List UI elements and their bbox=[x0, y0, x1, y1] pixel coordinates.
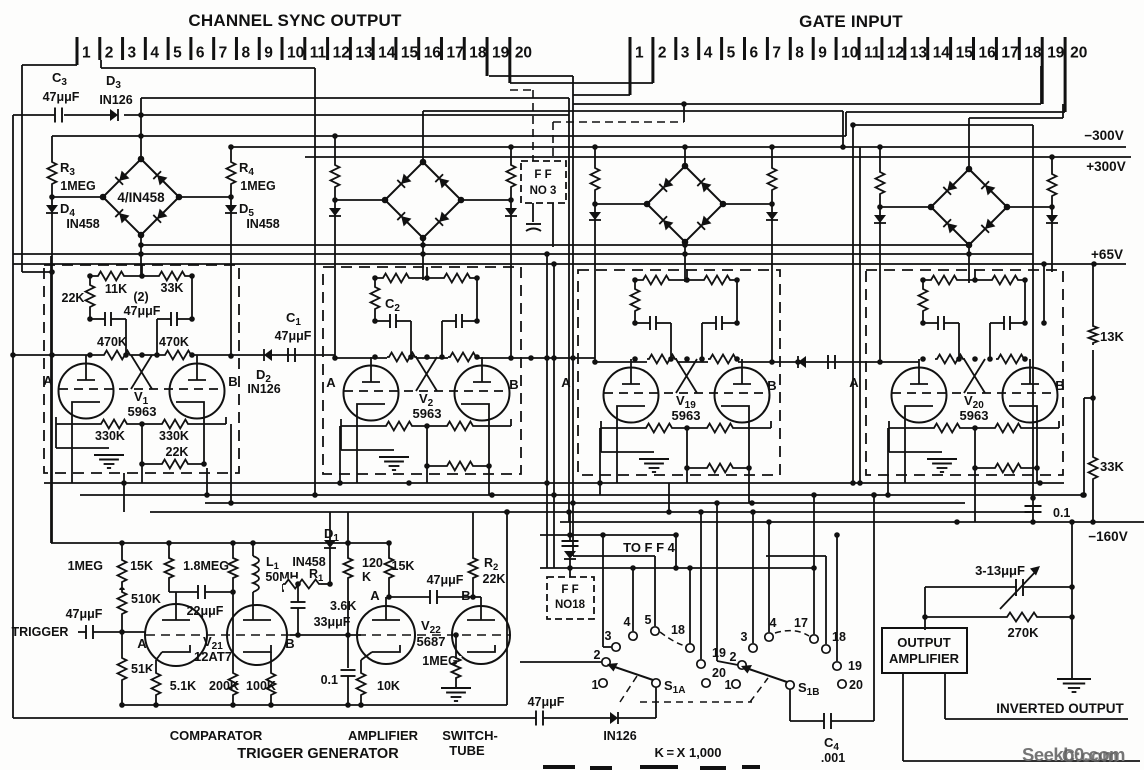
V19 plate resistor left bbox=[641, 275, 671, 286]
OUTPUT AMPLIFIER box bbox=[882, 628, 967, 673]
channel sync output pin 3 bbox=[121, 37, 124, 60]
resistor 10K bbox=[360, 660, 362, 671]
svg-text:A: A bbox=[370, 588, 380, 603]
wire B1 left arm bbox=[52, 196, 103, 198]
diode between V19 and V20 bbox=[798, 356, 806, 368]
svg-text:2: 2 bbox=[730, 650, 737, 664]
svg-text:B: B bbox=[228, 374, 237, 389]
V20 lower 22K row bbox=[974, 428, 976, 468]
svg-text:19: 19 bbox=[492, 45, 510, 62]
svg-text:5.1K: 5.1K bbox=[170, 679, 196, 693]
svg-text:47μμF: 47μμF bbox=[275, 329, 312, 343]
V20 cathode B lead bbox=[1036, 419, 1038, 468]
V2 right branch wire bbox=[476, 278, 478, 321]
resistor 1MEG (V22) bbox=[455, 635, 457, 656]
resistor 120K bbox=[347, 512, 349, 556]
channel sync output pin 19 bbox=[486, 37, 489, 76]
bridge diode quad B4 bbox=[931, 169, 1007, 245]
channel sync output pin 4 bbox=[144, 37, 147, 60]
svg-text:2: 2 bbox=[105, 45, 114, 62]
trigger bottom rail y705 bbox=[122, 704, 507, 706]
wire bridge B1 top lead bbox=[140, 98, 142, 159]
wire gate pin20 drop bbox=[846, 111, 1065, 113]
diode D1 IN458 bbox=[329, 512, 331, 540]
svg-text:14: 14 bbox=[378, 45, 396, 62]
V22 plate A bbox=[385, 597, 387, 620]
V20 right cap to +65 link bbox=[1043, 264, 1045, 323]
svg-text:17: 17 bbox=[794, 616, 808, 630]
V20 right branch wire bbox=[1024, 280, 1026, 323]
V19 grid resistor left bbox=[647, 354, 677, 365]
capacitor 47uuF trigger bbox=[85, 625, 87, 639]
svg-text:15K: 15K bbox=[130, 559, 153, 573]
svg-text:330K: 330K bbox=[95, 429, 125, 443]
V1 left divider resistor bbox=[89, 276, 91, 283]
channel sync output pin 16 bbox=[417, 37, 420, 60]
V2 speed-up capacitor right bbox=[442, 320, 456, 322]
svg-text:16: 16 bbox=[979, 45, 997, 62]
svg-text:5963: 5963 bbox=[960, 408, 989, 423]
FF NO 3 lower leads bbox=[532, 203, 534, 222]
svg-text:2: 2 bbox=[658, 45, 667, 62]
V1 plate A bbox=[85, 355, 87, 380]
svg-text:4: 4 bbox=[150, 45, 159, 62]
V2 tube envelope A bbox=[344, 366, 399, 421]
V20 tube envelope A bbox=[892, 368, 947, 423]
svg-text:IN458: IN458 bbox=[66, 217, 99, 231]
V1 plate resistor right bbox=[157, 271, 187, 282]
svg-text:B: B bbox=[461, 588, 470, 603]
svg-text:14: 14 bbox=[933, 45, 951, 62]
wire vertical x1033 (0.1 net) bbox=[1032, 125, 1034, 522]
svg-text:NO18: NO18 bbox=[555, 599, 586, 611]
svg-text:IN126: IN126 bbox=[99, 93, 132, 107]
svg-text:47μμF: 47μμF bbox=[427, 573, 464, 587]
svg-text:3-13μμF: 3-13μμF bbox=[975, 563, 1025, 578]
V20 drops to buses bbox=[887, 428, 889, 495]
bus y512 bbox=[150, 511, 1040, 513]
svg-text:22μμF: 22μμF bbox=[187, 604, 224, 618]
gate input pin 11 bbox=[858, 37, 861, 60]
V20 cathode rail bbox=[889, 427, 1059, 429]
svg-text:IN458: IN458 bbox=[246, 217, 279, 231]
V1 cathode A lead bbox=[71, 415, 73, 483]
svg-text:47μμF: 47μμF bbox=[43, 90, 80, 104]
V2 plate A bbox=[370, 357, 372, 382]
switch S1A wiper bbox=[652, 679, 660, 687]
V22 cathode A bbox=[372, 645, 400, 652]
svg-text:8: 8 bbox=[241, 45, 250, 62]
bus bridge bottoms y245 bbox=[141, 244, 969, 246]
channel sync output pin 12 bbox=[326, 37, 329, 60]
channel sync output pin 14 bbox=[372, 37, 375, 60]
svg-text:1: 1 bbox=[635, 45, 644, 62]
svg-text:NO 3: NO 3 bbox=[530, 185, 557, 197]
S1B dashed travel bbox=[700, 701, 752, 703]
svg-text:(2): (2) bbox=[133, 290, 148, 304]
V1 plate B bbox=[196, 355, 198, 380]
svg-text:9: 9 bbox=[818, 45, 827, 62]
svg-text:GATE INPUT: GATE INPUT bbox=[799, 12, 903, 31]
V22 plate B bbox=[473, 596, 481, 598]
svg-text:10: 10 bbox=[287, 45, 304, 62]
flip-flop V19 main line y362 bbox=[595, 361, 880, 363]
tube V22 envelope B bbox=[452, 606, 510, 664]
svg-text:B: B bbox=[1055, 378, 1064, 393]
svg-text:A: A bbox=[137, 636, 147, 651]
wire y104 bus bbox=[573, 103, 1041, 105]
wire B3 bottom lead bbox=[684, 242, 686, 282]
svg-text:13: 13 bbox=[355, 45, 373, 62]
V20 cathode B bbox=[1009, 406, 1037, 419]
svg-text:−160V: −160V bbox=[1088, 529, 1127, 544]
capacitor 33uuF bbox=[297, 584, 299, 602]
wire B2 right arm bbox=[461, 199, 511, 201]
svg-text:11: 11 bbox=[310, 45, 327, 62]
wire vertical x853 bbox=[852, 125, 854, 483]
flip-flop V19 dashed box bbox=[578, 270, 780, 475]
V20 ground branch bbox=[888, 428, 890, 452]
resistor 5.1K bbox=[151, 671, 162, 697]
svg-text:8: 8 bbox=[795, 45, 804, 62]
V19 cathode rail bbox=[601, 427, 771, 429]
V1 cathode B lead bbox=[203, 415, 205, 464]
svg-text:33μμF: 33μμF bbox=[314, 615, 351, 629]
bus y495 bbox=[80, 494, 1083, 496]
svg-text:120: 120 bbox=[362, 556, 383, 570]
svg-text:15: 15 bbox=[401, 45, 419, 62]
svg-text:1.8MEG: 1.8MEG bbox=[183, 559, 229, 573]
ground (output) bbox=[1057, 678, 1091, 680]
V21 cathode B bbox=[243, 645, 271, 652]
gate input pin 17 bbox=[995, 37, 998, 60]
svg-text:15K: 15K bbox=[392, 559, 415, 573]
bus +65V bbox=[13, 263, 1126, 265]
gate input pin 1 bbox=[629, 37, 632, 95]
svg-text:11K: 11K bbox=[105, 282, 127, 296]
svg-text:18: 18 bbox=[469, 45, 487, 62]
wire y125 bus right bbox=[853, 124, 1033, 126]
V19 ground branch bbox=[600, 428, 602, 452]
V1 right branch wire bbox=[191, 276, 193, 319]
svg-text:22K: 22K bbox=[483, 572, 506, 586]
FF NO 3 dashed box bbox=[521, 161, 566, 203]
flip-flop V20 dashed box bbox=[866, 270, 1063, 475]
V19 lower resistor bbox=[705, 463, 735, 474]
svg-text:270K: 270K bbox=[1007, 625, 1039, 640]
resistor leg B2 right bbox=[510, 147, 512, 163]
wire pin1 to left edge bbox=[22, 64, 77, 66]
resistor 15K (comparator) bbox=[168, 543, 170, 556]
wire x507 riser bbox=[506, 512, 508, 705]
wire y98 bus bbox=[141, 97, 569, 99]
flip-flop V20 main line bbox=[880, 361, 919, 363]
flip-flop V1 main line y355 bbox=[13, 354, 335, 356]
V20 grid resistor left bbox=[935, 354, 965, 365]
wire B1 bottom lead bbox=[140, 235, 142, 276]
dashed link to FF NO3 y122 bbox=[553, 121, 684, 123]
diode D3 IN126 bbox=[110, 109, 118, 121]
V20 left divider resistor bbox=[922, 280, 924, 287]
capacitor C1 47uuF bbox=[287, 348, 289, 362]
svg-text:13: 13 bbox=[910, 45, 928, 62]
svg-text:−300V: −300V bbox=[1084, 128, 1123, 143]
V19 tube envelope A bbox=[604, 368, 659, 423]
capacitor below FF NO3 bbox=[526, 223, 541, 225]
wire feedback top bbox=[925, 586, 1017, 588]
switch S1B contacts bbox=[738, 661, 746, 669]
gate input pin 16 bbox=[972, 37, 975, 60]
svg-text:33K: 33K bbox=[1100, 459, 1124, 474]
V19 drops to buses bbox=[599, 428, 601, 495]
svg-text:+65V: +65V bbox=[1091, 247, 1123, 262]
V1 lower 22K row bbox=[141, 424, 143, 464]
svg-text:17: 17 bbox=[446, 45, 463, 62]
bottom wire with 47uuF and IN126 bbox=[13, 717, 536, 719]
svg-text:F F: F F bbox=[561, 584, 578, 596]
svg-text:18: 18 bbox=[671, 623, 685, 637]
svg-text:5963: 5963 bbox=[128, 404, 157, 419]
V1 cathode A bbox=[72, 402, 100, 415]
V2 plate load rail bbox=[375, 277, 477, 279]
svg-text:5963: 5963 bbox=[672, 408, 701, 423]
S1A dashed travel bbox=[640, 701, 693, 703]
svg-text:12: 12 bbox=[333, 45, 350, 62]
V19 plate A bbox=[630, 359, 632, 384]
svg-text:1MEG: 1MEG bbox=[60, 179, 95, 193]
V20 plate resistor left bbox=[929, 275, 959, 286]
svg-text:A: A bbox=[326, 375, 336, 390]
svg-text:6: 6 bbox=[196, 45, 205, 62]
svg-text:510K: 510K bbox=[131, 592, 161, 606]
svg-text:TRIGGER: TRIGGER bbox=[12, 625, 69, 639]
svg-text:AMPLIFIER: AMPLIFIER bbox=[348, 728, 419, 743]
resistor R4 1MEG leg bbox=[230, 147, 232, 160]
svg-text:F F: F F bbox=[534, 169, 551, 181]
svg-text:7: 7 bbox=[219, 45, 228, 62]
V1 cathode B bbox=[176, 402, 204, 415]
svg-text:K: K bbox=[362, 570, 371, 584]
V21 plate A bbox=[175, 592, 177, 620]
resistor R2 22K bbox=[472, 512, 474, 556]
resistor 200K bbox=[232, 592, 234, 671]
svg-text:TUBE: TUBE bbox=[449, 743, 485, 758]
gate input pin 4 bbox=[697, 37, 700, 60]
resistor leg B3 left bbox=[594, 147, 596, 166]
V20 plate A bbox=[918, 359, 920, 384]
gate input pin 8 bbox=[789, 37, 792, 60]
svg-text:1MEG: 1MEG bbox=[422, 654, 457, 668]
gate input pin 6 bbox=[743, 37, 746, 60]
V19 grid dashed line bbox=[604, 392, 769, 394]
wire vertical x554 bbox=[553, 264, 555, 568]
V20 cathode A bbox=[905, 406, 933, 419]
V2 plate resistor right bbox=[442, 273, 472, 284]
V1 cathode rail bbox=[56, 423, 226, 425]
V20 ground bbox=[927, 458, 957, 460]
V1 lower resistor bbox=[160, 459, 190, 470]
svg-text:22K: 22K bbox=[62, 291, 85, 305]
wire B3 right arm bbox=[723, 203, 772, 205]
channel sync output pin 5 bbox=[167, 37, 170, 60]
wire pin2 bus y68 bbox=[100, 60, 102, 68]
svg-text:1: 1 bbox=[82, 45, 91, 62]
wire vertical x315 bbox=[314, 68, 316, 495]
bridge diode quad 4/IN458 (B1) bbox=[103, 159, 179, 235]
svg-text:3: 3 bbox=[681, 45, 690, 62]
V19 speed-up capacitor left bbox=[635, 322, 650, 324]
bridge diode quad B3 bbox=[647, 166, 723, 242]
V1 cathode resistor left bbox=[99, 419, 129, 430]
V21 cathode A bbox=[162, 645, 190, 652]
V19 ground bbox=[639, 458, 669, 460]
svg-text:10: 10 bbox=[841, 45, 858, 62]
V20 tube envelope B bbox=[1003, 368, 1058, 423]
V2 left divider resistor bbox=[374, 278, 376, 285]
svg-text:5: 5 bbox=[173, 45, 182, 62]
channel sync output pin 13 bbox=[349, 37, 352, 60]
channel sync output pin 10 bbox=[281, 37, 284, 60]
gate input pin 20 bbox=[1064, 37, 1067, 112]
tube V21 envelope A bbox=[145, 604, 207, 666]
svg-text:.001: .001 bbox=[821, 751, 845, 765]
inductor L1 50MH bbox=[252, 543, 254, 556]
svg-text:33K: 33K bbox=[161, 281, 184, 295]
svg-text:5: 5 bbox=[727, 45, 736, 62]
svg-text:OUTPUT: OUTPUT bbox=[897, 635, 951, 650]
gate input pin 3 bbox=[674, 37, 677, 60]
svg-text:12AT7: 12AT7 bbox=[194, 649, 232, 664]
V1 grid resistor left bbox=[102, 350, 132, 361]
channel sync output pin 18 bbox=[463, 37, 466, 60]
V20 grid dashed line bbox=[892, 392, 1057, 394]
V1 cathode resistor right bbox=[160, 419, 190, 430]
svg-text:9: 9 bbox=[264, 45, 273, 62]
flip-flop V2 dashed box bbox=[323, 267, 521, 474]
V2 cathode B bbox=[461, 404, 489, 417]
wire y136 bus (R3 top / gate pin20 net) bbox=[52, 135, 846, 137]
svg-text:22K: 22K bbox=[166, 445, 189, 459]
FF NO18 feed bbox=[569, 512, 571, 541]
wire pin20 to gate pin2 bbox=[510, 82, 653, 84]
V2 grid resistor left bbox=[387, 352, 417, 363]
V2 ground branch bbox=[340, 426, 342, 450]
V20 lower resistor bbox=[993, 463, 1023, 474]
V2 cathode resistor left bbox=[384, 421, 414, 432]
V2 cathode rail bbox=[341, 425, 511, 427]
gate input pin 12 bbox=[880, 37, 883, 60]
trigger top rail y543 bbox=[51, 542, 389, 544]
wire -160V to ground bbox=[1071, 522, 1073, 679]
svg-text:20: 20 bbox=[515, 45, 532, 62]
wire 13K-33K bbox=[1092, 350, 1094, 455]
V1 grid resistor right bbox=[163, 350, 193, 361]
caption fragments bottom bbox=[543, 767, 760, 768]
svg-text:3.6K: 3.6K bbox=[330, 599, 356, 613]
flip-flop V1 dashed box bbox=[44, 265, 239, 473]
svg-text:0.1: 0.1 bbox=[1053, 506, 1070, 520]
gate input pin 13 bbox=[903, 37, 906, 60]
svg-text:4: 4 bbox=[624, 615, 631, 629]
svg-text:100K: 100K bbox=[246, 679, 276, 693]
V20 cathode A lead bbox=[904, 419, 906, 483]
svg-text:+300V: +300V bbox=[1086, 159, 1125, 174]
gate input pin 15 bbox=[949, 37, 952, 60]
V20 speed-up capacitor left bbox=[923, 322, 938, 324]
resistor R3 1MEG leg bbox=[51, 136, 53, 160]
gate input pin 9 bbox=[812, 37, 815, 60]
diode D2 IN126 bbox=[264, 349, 272, 361]
V2 cathode A bbox=[357, 404, 385, 417]
channel sync output pin 9 bbox=[258, 37, 261, 60]
V2 cathode resistor right bbox=[445, 421, 475, 432]
V2 lower resistor bbox=[445, 461, 475, 472]
tube V22 envelope A bbox=[357, 606, 415, 664]
channel sync output pin 15 bbox=[394, 37, 397, 60]
V2 grid resistor right bbox=[448, 352, 478, 363]
wire B2 left arm bbox=[335, 199, 385, 201]
V1 ground bbox=[94, 454, 124, 456]
bus y254 bbox=[13, 253, 1033, 255]
channel sync output pin 7 bbox=[212, 37, 215, 60]
diode IN126 (bottom) bbox=[610, 712, 618, 724]
resistor 33K bbox=[1088, 455, 1099, 481]
resistor 1MEG (trigger) bbox=[121, 543, 123, 558]
dashed arc S1A 5-18 bbox=[660, 632, 686, 646]
gate input pin 14 bbox=[926, 37, 929, 60]
svg-text:1MEG: 1MEG bbox=[240, 179, 275, 193]
svg-text:CHANNEL SYNC OUTPUT: CHANNEL SYNC OUTPUT bbox=[188, 11, 402, 30]
svg-text:16: 16 bbox=[424, 45, 442, 62]
V2 cathode A lead bbox=[356, 417, 358, 483]
V1 plate resistor left bbox=[96, 271, 126, 282]
svg-text:SWITCH-: SWITCH- bbox=[442, 728, 498, 743]
bus y535 bbox=[540, 534, 676, 536]
V19 cathode B lead bbox=[748, 419, 750, 468]
wire box feed bbox=[924, 587, 926, 630]
V19 right branch wire bbox=[736, 280, 738, 323]
V19 plate B bbox=[741, 359, 743, 384]
wire to output ground x1084 bbox=[1084, 397, 1093, 399]
svg-text:4: 4 bbox=[770, 616, 777, 630]
svg-text:20: 20 bbox=[1070, 45, 1087, 62]
wire B2 top lead bbox=[422, 111, 424, 162]
channel sync output pin 8 bbox=[235, 37, 238, 60]
channel sync output pin 6 bbox=[189, 37, 192, 60]
svg-text:5963: 5963 bbox=[413, 406, 442, 421]
V2 ground bbox=[379, 456, 409, 458]
dashed arc S1B 4-17 bbox=[775, 631, 809, 636]
svg-text:15: 15 bbox=[956, 45, 974, 62]
wire B3 top lead bbox=[684, 147, 686, 166]
svg-text:K = X 1,000: K = X 1,000 bbox=[655, 745, 722, 760]
V20 plate load rail bbox=[923, 279, 1025, 281]
gate input pin 7 bbox=[766, 37, 769, 60]
gate input pin 5 bbox=[720, 37, 723, 60]
channel sync output pin 20 bbox=[508, 37, 511, 83]
svg-text:3: 3 bbox=[128, 45, 137, 62]
wire B4 top lead bbox=[968, 118, 970, 169]
svg-text:A: A bbox=[849, 375, 859, 390]
V2 plate resistor left bbox=[381, 273, 411, 284]
V1 ground branch bbox=[55, 424, 57, 448]
svg-text:6: 6 bbox=[750, 45, 759, 62]
V1 tube envelope B bbox=[170, 364, 225, 419]
svg-text:4/IN458: 4/IN458 bbox=[117, 190, 165, 205]
svg-text:200K: 200K bbox=[209, 679, 239, 693]
svg-text:470K: 470K bbox=[97, 335, 127, 349]
V1 drops to buses bbox=[123, 473, 125, 512]
